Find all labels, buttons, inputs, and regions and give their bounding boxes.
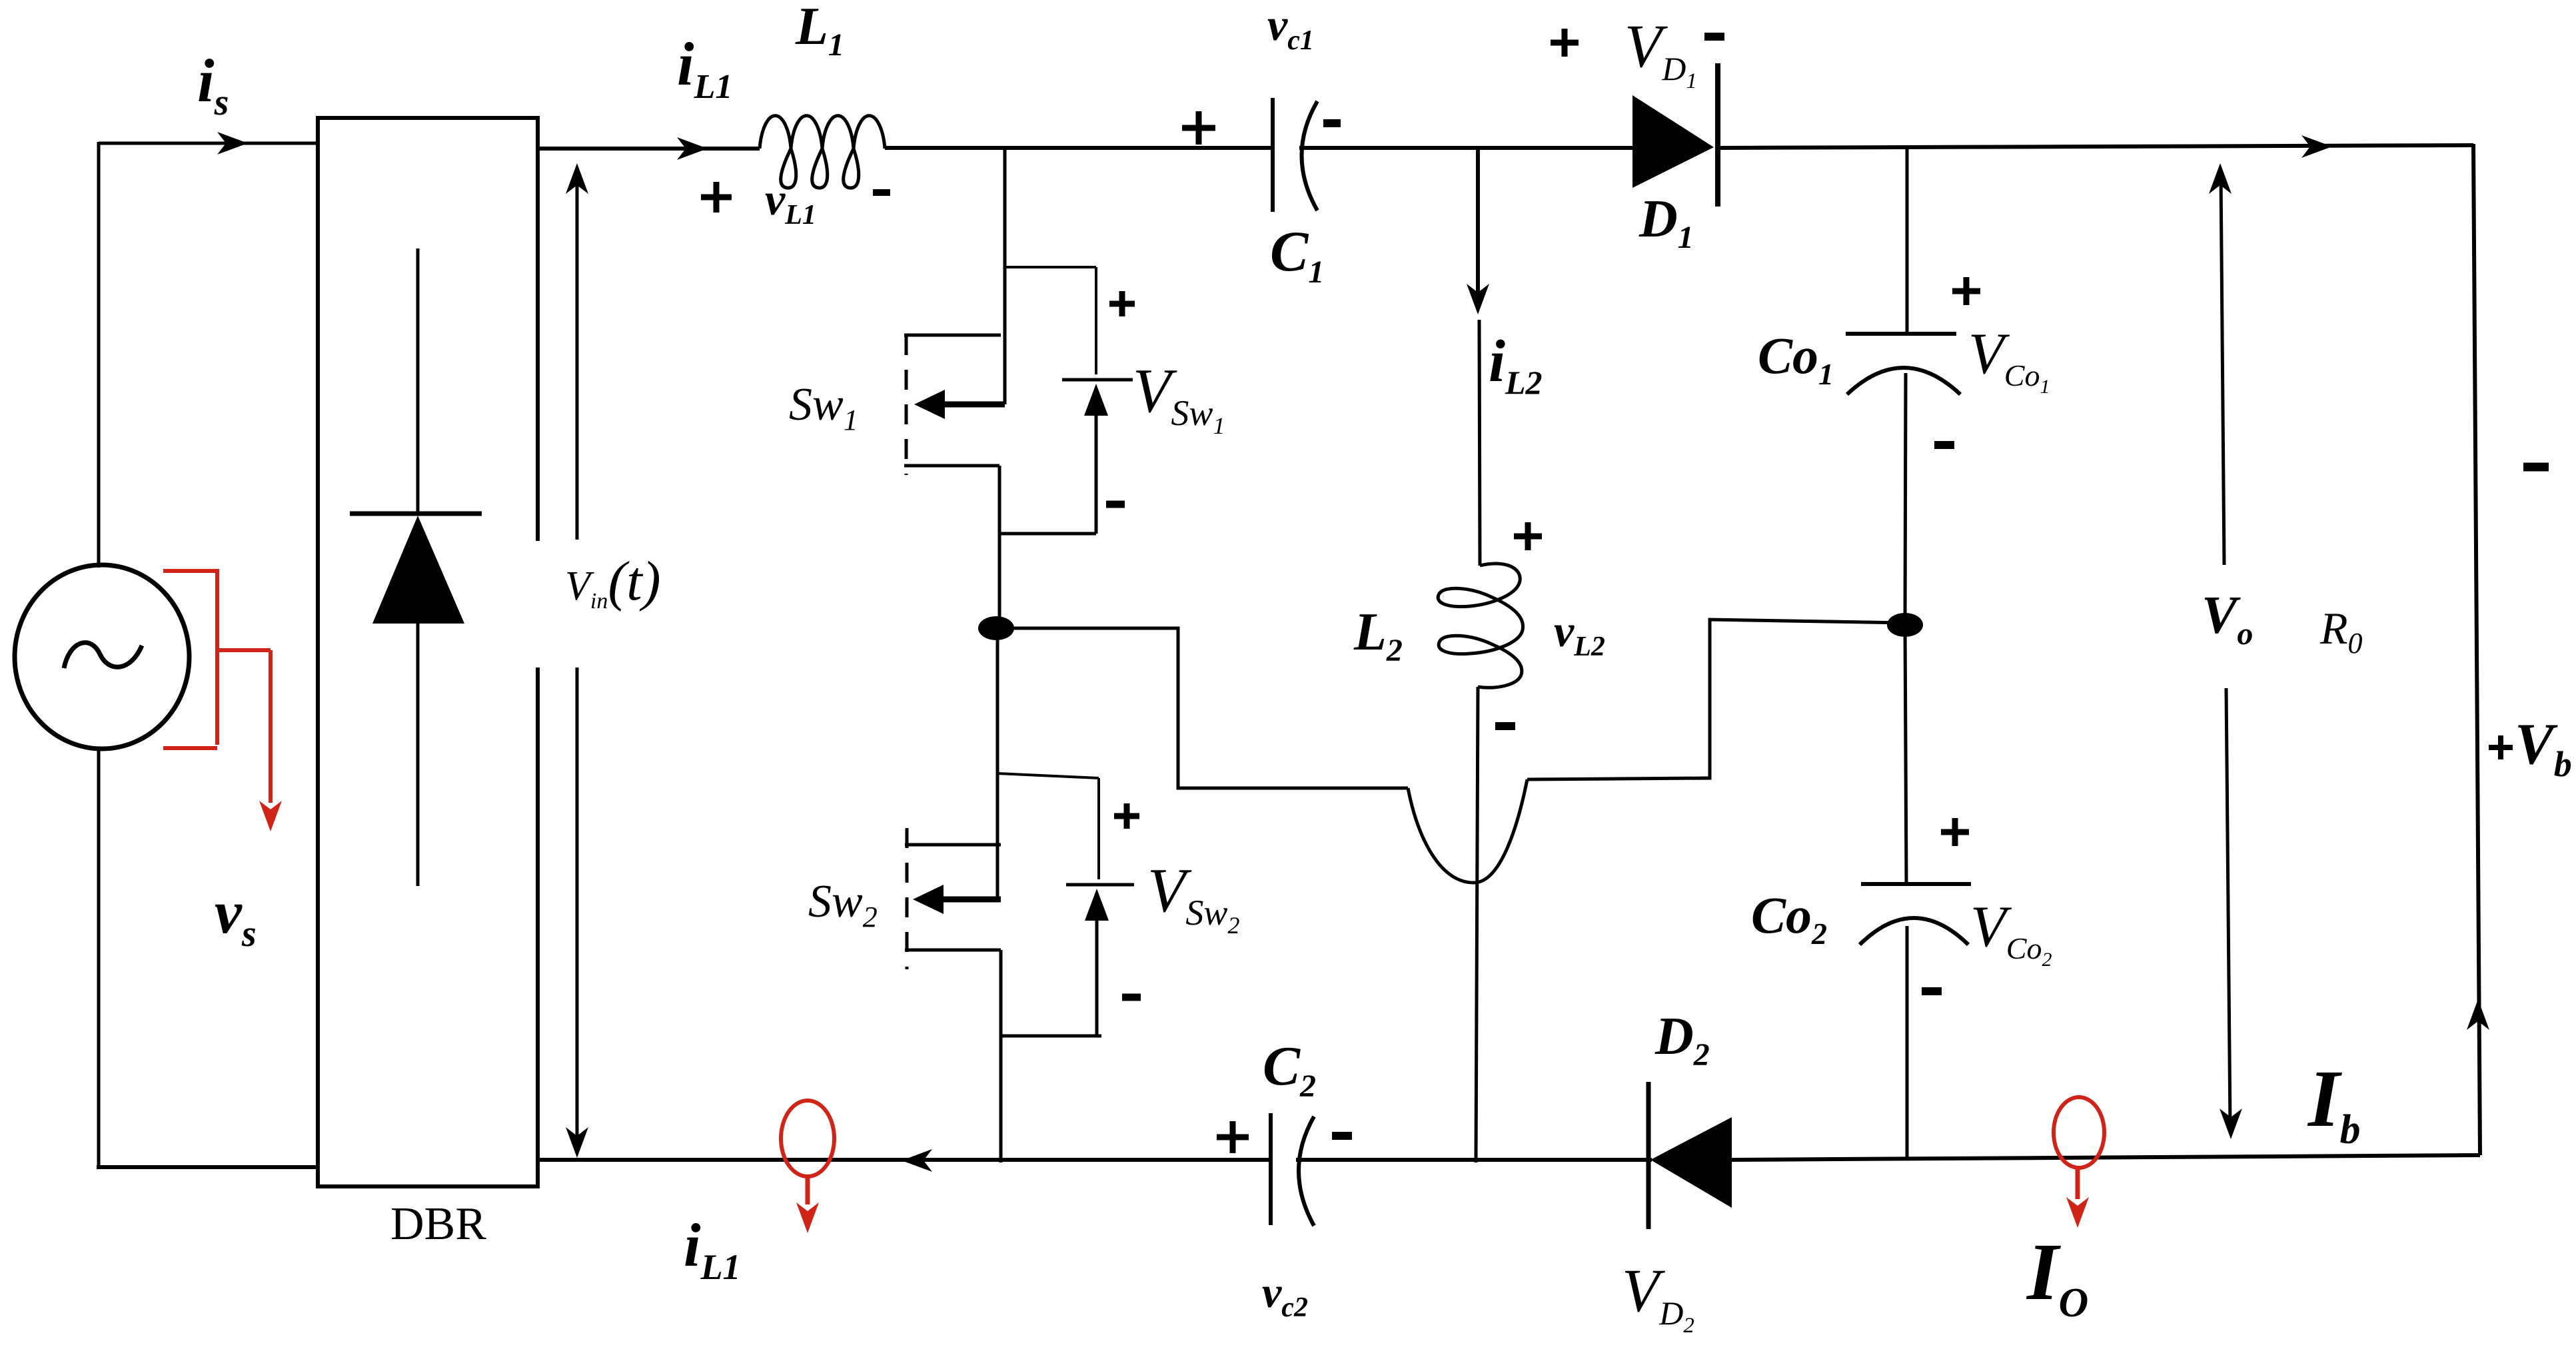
- Sw2 gate bottom bar: [905, 949, 1001, 952]
- wire from Co1 to middle junction: [1905, 373, 1906, 625]
- svg-text:IO: IO: [2026, 1227, 2088, 1326]
- output rail top from top rail to Co1: [1906, 147, 1909, 334]
- Sw2 gate dashed line: [906, 828, 909, 969]
- svg-text:VCo1: VCo1: [1968, 322, 2050, 398]
- Sw2 source lead down to bottom rail: [999, 950, 1003, 1162]
- wire from junction to Co2: [1905, 625, 1906, 884]
- measurement arrow V_o: [2221, 175, 2224, 565]
- svg-text:vc2: vc2: [1262, 1268, 1308, 1323]
- minus sign V_D1: [1704, 33, 1724, 41]
- svg-text:C1: C1: [1270, 219, 1324, 290]
- minus sign C1: [1323, 119, 1341, 127]
- Sw2 gate arrow: [929, 897, 1001, 903]
- svg-text:vs: vs: [215, 878, 257, 955]
- red probe arrow v_s: [269, 650, 273, 803]
- svg-text:Sw1: Sw1: [789, 379, 858, 436]
- switch Sw1 drain lead from top rail: [1003, 149, 1007, 404]
- Sw2 voltage loop wires: [997, 773, 1099, 778]
- DBR diode triangle: [372, 516, 464, 624]
- capacitor Co1 curved bottom plate: [1847, 368, 1960, 394]
- arrow i_L1 on top rail: [677, 137, 708, 160]
- minus sign right rail: [2523, 463, 2549, 472]
- capacitor C1 right curved plate: [1302, 101, 1318, 211]
- wire: left vertical from top wire down to AC source: [97, 142, 101, 568]
- minus sign v_L1: [873, 189, 890, 196]
- plus sign V_D1: [1551, 29, 1579, 57]
- red current probe i_L1: [781, 1101, 834, 1176]
- diode D2 triangle: [1650, 1117, 1732, 1208]
- svg-text:vL2: vL2: [1554, 606, 1605, 662]
- svg-text:vc1: vc1: [1267, 0, 1314, 56]
- wire from Co2 to bottom rail: [1906, 926, 1909, 1159]
- svg-text:VSw1: VSw1: [1133, 356, 1225, 439]
- svg-text:D1: D1: [1638, 190, 1694, 255]
- minus sign V_Sw2: [1122, 994, 1141, 1001]
- Sw1 voltage arrowhead V_Sw1: [1084, 384, 1108, 416]
- DBR diode anode lead: [416, 624, 420, 886]
- svg-text:VSw2: VSw2: [1147, 856, 1239, 939]
- plus sign v_L2: [1514, 522, 1542, 550]
- plus sign V_Sw2: [1114, 803, 1139, 829]
- switch Sw2 drain lead from junction: [996, 628, 999, 899]
- svg-text:C2: C2: [1263, 1035, 1316, 1104]
- inductor L2 coil vertical: [1438, 564, 1523, 687]
- DBR rectangle box: [318, 118, 538, 1186]
- wire: bottom-left from corner to DBR: [97, 1165, 318, 1169]
- wire: top rail from C1 to D1: [1299, 146, 1634, 150]
- minus sign V_Sw1: [1106, 501, 1125, 508]
- svg-text:VD2: VD2: [1622, 1256, 1694, 1338]
- arrow up on right rail: [2467, 999, 2489, 1030]
- wire: bottom rail from C2 to D2: [1296, 1158, 1652, 1162]
- wire: top rail from D1 to right corner: [1718, 145, 2473, 148]
- diode D1 triangle: [1632, 95, 1714, 188]
- DBR diode cathode bar: [350, 512, 482, 516]
- branch lead i_L2 from top rail: [1476, 148, 1480, 301]
- Sw1 voltage loop wires: [1005, 266, 1096, 268]
- svg-text:vL1: vL1: [765, 174, 816, 230]
- junction node between Sw1 and Sw2: [978, 616, 1014, 640]
- Sw2 voltage arrowhead V_Sw2: [1085, 889, 1109, 921]
- minus sign C2: [1332, 1132, 1352, 1140]
- capacitor Co2 top plate: [1861, 882, 1971, 886]
- Sw1 gate dashed line: [905, 335, 908, 475]
- svg-text:D2: D2: [1654, 1007, 1710, 1073]
- svg-text:VCo2: VCo2: [1970, 895, 2052, 971]
- capacitor Co1 top plate: [1846, 332, 1956, 336]
- svg-text:iL2: iL2: [1489, 328, 1543, 401]
- capacitor C2 left plate: [1269, 1113, 1273, 1225]
- svg-text:iL1: iL1: [684, 1211, 741, 1287]
- plus sign C1: [1182, 111, 1215, 145]
- diode D1 cathode bar: [1715, 63, 1720, 207]
- wire: middle link from junction to the right: [996, 628, 1408, 788]
- svg-text:L1: L1: [795, 0, 844, 63]
- capacitor C1 left plate: [1271, 98, 1275, 212]
- Sw1 gate top bar: [904, 334, 1001, 337]
- red current probe I_o: [2054, 1097, 2104, 1168]
- svg-text:R0: R0: [2319, 603, 2363, 660]
- label V_in(t) on white patch: [532, 541, 662, 668]
- plus sign v_L1: [701, 182, 732, 213]
- minus sign Co2: [1922, 987, 1942, 995]
- svg-text:Vb: Vb: [2515, 712, 2572, 784]
- Sw1 source lead down to junction: [998, 466, 1001, 630]
- capacitor Co2 curved bottom plate: [1860, 918, 1968, 945]
- svg-text:DBR: DBR: [390, 1198, 486, 1250]
- svg-text:Co1: Co1: [1758, 326, 1834, 391]
- wire: right rail (battery branch): [2473, 144, 2480, 1155]
- svg-text:Co2: Co2: [1751, 886, 1827, 951]
- arrow on bottom rail pointing left: [902, 1149, 932, 1172]
- svg-text:Ib: Ib: [2307, 1054, 2360, 1152]
- DBR diode cathode lead: [416, 248, 420, 514]
- svg-text:iL1: iL1: [677, 30, 732, 106]
- svg-text:Sw2: Sw2: [808, 876, 878, 933]
- inductor L1 coil: [760, 116, 885, 149]
- wire: bottom rail from DBR to C2: [536, 1158, 1271, 1162]
- wire hop over L2 leg: [1408, 779, 1527, 883]
- svg-text:VD1: VD1: [1624, 12, 1697, 93]
- plus sign Co1: [1952, 277, 1980, 305]
- wire: top rail from DBR to L1: [536, 147, 760, 151]
- red probe bracket at source: [163, 569, 271, 748]
- label +V_b: [2489, 735, 2513, 759]
- measurement arrow V_in vertical: [576, 175, 579, 540]
- wire: left vertical from AC source down to bottom-left corner: [97, 747, 101, 1169]
- Sw1 gate bottom bar: [904, 464, 999, 468]
- wire: L2 bottom lead to bottom rail: [1476, 687, 1478, 1162]
- Sw2 gate top bar: [905, 843, 1001, 847]
- wire: top rail from L1 to C1: [885, 146, 1274, 150]
- diode D2 cathode bar: [1646, 1082, 1651, 1229]
- plus sign V_Sw1: [1109, 291, 1135, 316]
- plus sign Co2: [1941, 818, 1969, 846]
- arrow on top rail right: [2301, 135, 2332, 158]
- svg-text:Vo: Vo: [2202, 586, 2253, 652]
- minus sign Co1: [1934, 441, 1954, 449]
- svg-text:L2: L2: [1353, 603, 1403, 668]
- svg-text:is: is: [197, 47, 229, 123]
- junction node on output rail: [1887, 613, 1923, 637]
- wire: bottom rail from D2 to right corner: [1732, 1155, 2480, 1160]
- wire: middle link continuing to output rail: [1527, 620, 1905, 779]
- AC source v_s circle: [15, 565, 189, 749]
- wire: top-left from source to DBR: [99, 142, 319, 145]
- Sw1 gate arrow: [930, 402, 1005, 408]
- arrow i_s on top-left wire: [217, 132, 248, 155]
- AC source tilde symbol: [64, 643, 142, 668]
- capacitor C2 right curved plate: [1299, 1117, 1314, 1226]
- plus sign C2: [1217, 1121, 1249, 1153]
- minus sign v_L2: [1495, 722, 1515, 730]
